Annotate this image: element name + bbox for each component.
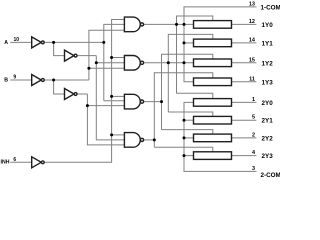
wire control bus 2 — [168, 34, 213, 112]
junction E-bar G4 — [110, 133, 113, 136]
wire A input — [10, 41, 31, 43]
wire G1 output to switch 1Y0 — [144, 23, 194, 25]
junction bus2 G2 — [167, 61, 170, 64]
wire pin 11 — [232, 81, 257, 83]
svg-text:1Y2: 1Y2 — [262, 60, 274, 67]
switch box 1Y0 — [194, 21, 232, 29]
wire INH input — [10, 161, 31, 163]
junction B riser G3 — [86, 104, 89, 107]
wire E-bar to G4 — [112, 134, 125, 136]
nand gate G4 — [124, 133, 140, 148]
wire 2-COM bus — [184, 102, 257, 171]
switch box 1Y2 — [194, 59, 232, 67]
switch box 2Y3 — [194, 152, 232, 160]
wire 2-COM stub 2Y3 — [184, 155, 194, 157]
svg-text:12: 12 — [249, 19, 255, 25]
svg-text:1Y0: 1Y0 — [262, 22, 274, 29]
nand gate G3 — [124, 94, 140, 109]
svg-text:9: 9 — [13, 75, 16, 81]
nand gate G2 — [124, 56, 140, 71]
wire control bus 1 lower rail — [177, 93, 213, 98]
wire E-bar to G3 — [112, 95, 125, 97]
svg-text:1Y3: 1Y3 — [262, 79, 274, 86]
wire G3 output — [144, 101, 162, 103]
wire 2-COM stub 2Y2 — [184, 137, 194, 139]
wire pin 2 — [232, 137, 257, 139]
switch box 1Y1 — [194, 39, 232, 47]
wire A to G2 — [96, 62, 124, 64]
junction E-bar G2 — [110, 56, 113, 59]
wire B-bar net — [44, 79, 89, 81]
junction bus3 G3 — [160, 100, 163, 103]
wire B-bar to G2 — [89, 67, 125, 69]
junction A-bar riser — [102, 41, 105, 44]
wire pin 14 — [232, 42, 257, 44]
svg-text:3: 3 — [252, 166, 255, 172]
svg-text:6: 6 — [13, 157, 16, 163]
wire G2 output to switch 1Y2 row — [144, 62, 194, 64]
wire control bus 1 — [177, 16, 213, 93]
svg-text:1Y1: 1Y1 — [262, 40, 274, 47]
svg-text:2Y0: 2Y0 — [262, 100, 274, 107]
svg-text:A: A — [4, 40, 8, 46]
svg-text:13: 13 — [249, 1, 255, 7]
wire B buffered — [77, 93, 87, 95]
wire G4 output — [144, 139, 155, 141]
junction 1-COM 1Y0 — [183, 23, 186, 26]
junction A riser G2 — [95, 61, 98, 64]
svg-text:1-COM: 1-COM — [261, 4, 281, 11]
svg-text:2Y1: 2Y1 — [262, 118, 274, 125]
switch box 2Y2 — [194, 134, 232, 142]
wire control bus 4 lower rail — [154, 147, 213, 152]
wire to inverter A2 — [54, 42, 65, 55]
inverter U1a (A) — [32, 37, 42, 48]
wire A buffered — [77, 55, 96, 57]
wire A-bar riser — [104, 24, 125, 100]
wire B to G3 — [87, 105, 124, 107]
wire B-bar riser — [89, 30, 125, 80]
wire A riser — [96, 56, 124, 140]
wire B riser — [87, 94, 124, 145]
wire pin 4 — [232, 155, 257, 157]
svg-text:10: 10 — [13, 37, 19, 43]
switch box 2Y0 — [194, 99, 232, 107]
junction bus1 G1 — [175, 23, 178, 26]
wire pin 12 — [232, 23, 257, 25]
wire A-bar net — [44, 41, 104, 43]
inverter U2a (B) — [32, 75, 42, 86]
svg-text:14: 14 — [249, 37, 256, 43]
svg-text:5: 5 — [252, 115, 255, 121]
svg-text:2: 2 — [252, 132, 255, 138]
switch box 1Y3 — [194, 78, 232, 86]
wire pin 15 — [232, 62, 257, 64]
inverter U2b (B buffer) — [65, 89, 75, 100]
nand gate G1 — [124, 17, 140, 32]
inverter U3 (INH) — [32, 157, 42, 168]
junction 1-COM 1Y2 — [183, 61, 186, 64]
junction 1-COM 1Y1 — [183, 41, 186, 44]
svg-text:1: 1 — [252, 97, 255, 103]
inverter U1b (A buffer) — [65, 50, 75, 61]
junction B-bar to inv — [52, 79, 55, 82]
svg-text:INH: INH — [1, 160, 10, 166]
junction 2-COM 2Y3 — [183, 154, 186, 157]
junction B-bar riser G2 — [87, 67, 90, 70]
wire E-bar riser — [44, 20, 124, 163]
junction bus4 G4 — [153, 138, 156, 141]
svg-text:15: 15 — [249, 57, 255, 63]
wire pin 5 — [232, 119, 257, 121]
wire pin 1 — [232, 101, 257, 103]
svg-text:2-COM: 2-COM — [261, 172, 281, 179]
junction A-bar to inv — [52, 41, 55, 44]
svg-text:2Y3: 2Y3 — [262, 153, 274, 160]
junction 2-COM 2Y2 — [183, 136, 186, 139]
svg-text:B: B — [4, 77, 8, 83]
switch box 2Y1 — [194, 116, 232, 124]
wire E-bar to G2 — [112, 57, 125, 59]
wire B input — [10, 79, 31, 81]
wire control bus 3 — [162, 54, 213, 129]
svg-text:2Y2: 2Y2 — [262, 135, 274, 142]
svg-text:11: 11 — [249, 76, 255, 82]
junction 2-COM 2Y1 — [183, 119, 186, 122]
wire control bus 4 — [154, 73, 213, 148]
wire control bus 2 lower rail — [168, 112, 213, 116]
wire 1-COM bus — [184, 7, 257, 82]
wire to inverter B2 — [54, 80, 65, 94]
wire control bus 3 lower rail — [162, 130, 213, 135]
wire 1-COM stub 1Y1 — [184, 42, 194, 44]
junction E-bar G3 — [110, 95, 113, 98]
wire A-bar to G3 — [104, 100, 125, 102]
wire 2-COM stub 2Y1 — [184, 119, 194, 121]
